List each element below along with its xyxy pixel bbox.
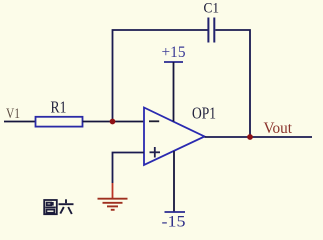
wire op-amp bottom to -15 [173, 151, 175, 212]
wire +15 to op-amp top [173, 62, 175, 122]
op-amp plus input symbol [150, 151, 161, 153]
capacitor C1 [207, 18, 209, 43]
svg-text:+15: +15 [162, 44, 186, 61]
ground symbol [98, 199, 128, 210]
wire op-amp output [205, 136, 313, 138]
svg-text:OP1: OP1 [192, 104, 216, 123]
op-amp U1 triangle [144, 108, 205, 166]
caption glyph 圖 (Figure) [44, 200, 57, 214]
op-amp minus input symbol [149, 120, 159, 122]
power +15 bar [164, 61, 183, 63]
ground stem [112, 183, 114, 198]
resistor R1 [36, 117, 83, 127]
wire V1 to R1 [4, 121, 36, 123]
svg-text:Vout: Vout [264, 120, 293, 137]
wire feedback left vertical and top [113, 30, 208, 122]
svg-text:C1: C1 [204, 0, 220, 16]
svg-text:R1: R1 [51, 98, 67, 117]
svg-text:V1: V1 [6, 106, 20, 122]
junction node at inverting input [110, 119, 116, 125]
wire non-inverting input to ground [113, 153, 145, 184]
caption glyph 六 (six) [59, 199, 74, 214]
svg-text:-15: -15 [162, 214, 186, 231]
junction node at output [247, 134, 253, 140]
wire C1 to feedback right vertical [215, 30, 250, 137]
wire R1 to op-amp inverting input [83, 121, 145, 123]
power -15 bar [165, 211, 186, 213]
